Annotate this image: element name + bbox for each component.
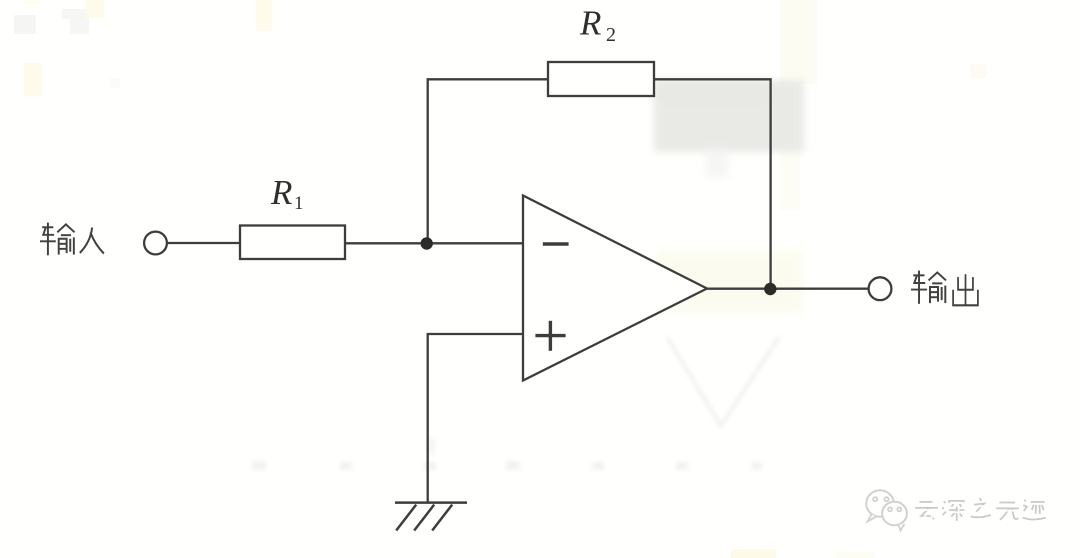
watermark: [866, 490, 1048, 530]
circuit strokes: [144, 62, 891, 531]
label "chu" (output) glyph: [953, 274, 978, 305]
wire feedback left vertical: [428, 79, 548, 243]
wire R1 to node A: [345, 242, 523, 244]
faint dotted guide line bleed: [252, 438, 762, 470]
wire op-amp output: [706, 288, 869, 290]
node A junction dot: [421, 237, 433, 249]
wire R2 to output node: [654, 79, 771, 289]
input terminal: [144, 232, 167, 255]
watermark text "yun shen zhi wu ji": [915, 498, 1046, 521]
ghost triangle bleed-through: [667, 337, 779, 426]
op-amp minus pin: [543, 242, 569, 245]
watermark wechat icon: [866, 490, 907, 530]
op-amp U1: [523, 196, 707, 381]
svg-text:R: R: [579, 4, 601, 43]
wire input to R1: [167, 242, 241, 244]
label "shu" (input) glyph: [40, 223, 75, 256]
resistor R2: [548, 62, 654, 96]
watermark emboss highlight: [917, 503, 1048, 523]
output terminal: [869, 277, 892, 300]
svg-text:2: 2: [606, 24, 616, 46]
svg-text:R: R: [270, 173, 292, 212]
svg-text:1: 1: [294, 193, 304, 214]
resistor R1: [240, 226, 345, 260]
page-bleed shadow right of R2: [654, 80, 804, 152]
wire non-inverting input: [428, 334, 523, 502]
ground: [395, 503, 467, 531]
label "shu" (output) glyph: [911, 271, 946, 304]
label "ru" (input) glyph: [80, 227, 104, 253]
output node junction dot: [764, 283, 776, 295]
op-amp plus pin: [535, 334, 565, 337]
